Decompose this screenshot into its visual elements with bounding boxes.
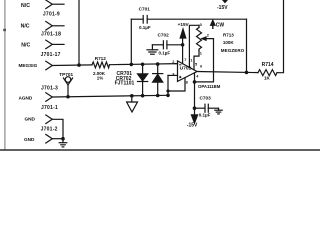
wire op-amp output pin 6 — [197, 72, 258, 73]
wire op-amp pin 2 input — [175, 63, 178, 65]
svg-text:R713: R713 — [223, 32, 234, 37]
wiper R713 pin 2 — [195, 37, 214, 82]
diode CR701 — [138, 64, 148, 95]
connector pin J701-17 — [46, 40, 64, 49]
svg-text:C703: C703 — [200, 96, 212, 101]
border zone tick — [3, 29, 6, 31]
svg-text:7: 7 — [184, 57, 186, 62]
svg-text:OPA111BM: OPA111BM — [198, 84, 221, 89]
node CR701 top junction — [141, 63, 145, 67]
node CR702 top junction — [156, 62, 160, 66]
connector pin J701-18 — [46, 22, 64, 31]
connector pin J701-2 GND — [46, 134, 63, 143]
node C703 junction — [193, 106, 197, 110]
svg-text:3: 3 — [200, 22, 203, 27]
wire feedback right vertical — [246, 19, 248, 72]
svg-text:8: 8 — [186, 79, 189, 84]
svg-text:6: 6 — [200, 64, 203, 69]
wire output to top edge — [277, 0, 284, 73]
node CR701 bottom junction — [141, 94, 145, 98]
svg-text:J701-3: J701-3 — [41, 86, 58, 92]
svg-text:J701-2: J701-2 — [41, 126, 58, 132]
wire feedback top left — [131, 18, 143, 20]
capacitor C702 — [152, 41, 182, 49]
svg-text:J701-1: J701-1 — [41, 105, 58, 111]
svg-text:1: 1 — [190, 57, 193, 62]
svg-text:C702: C702 — [158, 33, 170, 38]
label plus — [179, 76, 181, 78]
connector pin J701-3 AGND — [46, 93, 53, 102]
svg-text:1%: 1% — [97, 75, 104, 80]
border bottom — [0, 149, 320, 151]
node TP701 junction — [66, 95, 70, 99]
potentiometer R713 — [197, 25, 202, 50]
svg-text:-15V: -15V — [217, 5, 228, 11]
node pin3 AGND junction — [166, 94, 170, 98]
svg-text:MEGZERO: MEGZERO — [221, 48, 245, 53]
node analog ground junction — [130, 94, 134, 98]
svg-text:FJT1101: FJT1101 — [115, 80, 135, 86]
power -15V arrow bottom — [191, 115, 197, 123]
wire AGND line — [52, 95, 168, 97]
svg-text:2: 2 — [207, 32, 210, 37]
op-amp U702 — [178, 61, 198, 82]
node wiper to V- junction — [193, 80, 197, 84]
node C702 to +15V junction — [181, 43, 185, 47]
svg-text:1: 1 — [200, 50, 203, 55]
ground C702 — [147, 45, 158, 54]
resistor R714 — [258, 70, 277, 76]
power +15V arrow — [180, 29, 186, 64]
label minus — [179, 64, 181, 66]
svg-text:C701: C701 — [139, 7, 151, 12]
node CR702 bottom junction — [156, 94, 160, 98]
resistor R712 — [92, 62, 110, 68]
ground analog (open triangle) — [127, 96, 138, 112]
svg-text:AGND: AGND — [19, 95, 33, 100]
capacitor C703 — [195, 104, 219, 112]
wire op-amp pin 1 to pot — [189, 25, 199, 67]
svg-text:J701-9: J701-9 — [43, 11, 60, 17]
wire input line middle — [110, 64, 178, 65]
svg-text:+15V: +15V — [178, 22, 190, 27]
svg-text:GND: GND — [25, 116, 36, 121]
wire pin3 vertical to AGND — [167, 75, 169, 95]
wire op-amp pin 8 guard — [168, 78, 185, 91]
svg-text:100K: 100K — [223, 40, 235, 45]
svg-text:TP701: TP701 — [59, 72, 73, 77]
svg-text:J701-17: J701-17 — [41, 52, 61, 58]
capacitor C701 — [143, 16, 147, 24]
svg-text:R712: R712 — [95, 56, 107, 61]
connector pin J701-1 GND — [46, 115, 63, 139]
svg-text:4: 4 — [196, 74, 199, 79]
wire op-amp pin 4 V- — [194, 73, 196, 115]
svg-text:5: 5 — [195, 61, 198, 66]
svg-text:N/C: N/C — [21, 24, 30, 30]
wire op-amp pin 5 to pot — [194, 51, 199, 70]
svg-text:0.1µF: 0.1µF — [159, 50, 171, 55]
wire C701 feedback vertical — [130, 19, 132, 64]
svg-text:MEGSIG: MEGSIG — [19, 63, 38, 68]
svg-text:GND: GND — [24, 137, 35, 142]
svg-text:0.1µF: 0.1µF — [199, 112, 211, 117]
power -15V arrow top edge — [223, 0, 227, 3]
ground C703 — [215, 108, 222, 114]
wire op-amp pin 3 input — [168, 74, 178, 76]
svg-text:U702: U702 — [180, 66, 192, 72]
CW arrow — [211, 20, 215, 28]
svg-text:N/C: N/C — [21, 42, 30, 48]
diode CR702 — [153, 64, 163, 95]
node input guard junction — [77, 63, 81, 67]
node feedback to output junction — [245, 71, 249, 75]
svg-text:-15V: -15V — [187, 122, 198, 128]
svg-text:1K: 1K — [264, 75, 271, 80]
ground GND symbol — [59, 139, 67, 147]
border left — [4, 0, 6, 150]
node C701 to input junction — [130, 63, 134, 67]
wire feedback top right — [147, 18, 246, 20]
test point TP701 — [63, 77, 72, 97]
wire MEGSIG input line — [52, 64, 92, 67]
svg-text:CW: CW — [216, 22, 225, 28]
svg-text:N/C: N/C — [21, 3, 30, 9]
node GND junction — [61, 137, 65, 141]
connector pin MEGSIG J701 — [46, 61, 53, 70]
wire guard stub to top edge — [78, 0, 80, 65]
svg-text:0.1µF: 0.1µF — [139, 25, 151, 30]
svg-text:R714: R714 — [262, 62, 274, 68]
svg-text:J701-18: J701-18 — [41, 32, 61, 38]
connector pin J701-9 — [46, 0, 64, 9]
node pin8 junction — [166, 89, 169, 92]
